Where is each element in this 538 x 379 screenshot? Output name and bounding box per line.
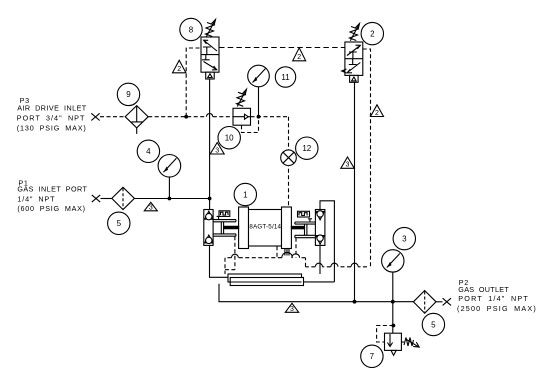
svg-text:9: 9 — [126, 90, 131, 99]
svg-text:(600 PSIG MAX): (600 PSIG MAX) — [17, 204, 85, 213]
svg-text:2: 2 — [370, 29, 375, 38]
svg-text:3: 3 — [215, 148, 219, 155]
svg-text:1: 1 — [243, 190, 248, 199]
svg-text:(2500 PSIG MAX): (2500 PSIG MAX) — [457, 304, 537, 313]
svg-text:GAS INLET PORT: GAS INLET PORT — [17, 185, 87, 194]
svg-text:3: 3 — [149, 205, 153, 212]
svg-text:3: 3 — [290, 306, 294, 313]
svg-text:PORT 1/4" NPT: PORT 1/4" NPT — [458, 294, 529, 303]
svg-text:2: 2 — [375, 110, 379, 117]
svg-text:4: 4 — [146, 147, 151, 156]
svg-text:1/4" NPT: 1/4" NPT — [17, 195, 55, 204]
svg-text:3: 3 — [346, 162, 350, 169]
svg-text:11: 11 — [281, 73, 290, 82]
svg-text:7: 7 — [370, 352, 375, 361]
svg-text:12: 12 — [302, 144, 311, 153]
svg-text:PORT 3/4" NPT: PORT 3/4" NPT — [17, 113, 86, 122]
svg-text:8: 8 — [189, 25, 194, 34]
svg-text:3: 3 — [402, 234, 407, 243]
svg-text:5: 5 — [117, 219, 122, 228]
svg-text:2: 2 — [177, 66, 181, 73]
svg-text:(130 PSIG MAX): (130 PSIG MAX) — [17, 123, 87, 132]
svg-text:GAS OUTLET: GAS OUTLET — [458, 285, 509, 294]
svg-text:2: 2 — [297, 54, 301, 61]
svg-text:8AGT-5/14: 8AGT-5/14 — [249, 224, 281, 231]
svg-text:AIR DRIVE INLET: AIR DRIVE INLET — [17, 103, 87, 112]
svg-text:10: 10 — [225, 134, 234, 143]
svg-text:5: 5 — [431, 320, 436, 329]
